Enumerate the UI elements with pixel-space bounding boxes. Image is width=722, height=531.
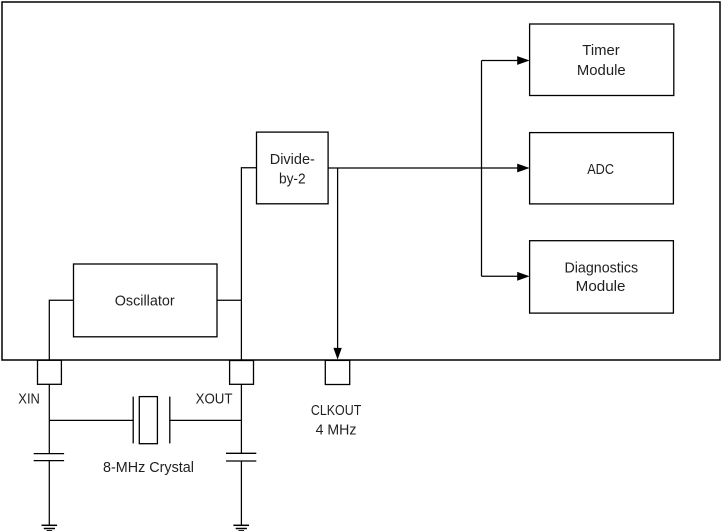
- crystal Y1 body: [139, 397, 157, 444]
- svg-text:XIN: XIN: [18, 391, 40, 407]
- wire divide-by-2 output to ADC: [328, 167, 518, 169]
- svg-text:Timer: Timer: [582, 43, 619, 59]
- wire crystal net left segment: [49, 419, 133, 421]
- wire XIN pin down to crystal net: [48, 383, 50, 420]
- ground left: [42, 525, 58, 531]
- wire left capacitor top lead: [48, 420, 50, 453]
- svg-text:Diagnostics: Diagnostics: [564, 260, 638, 276]
- svg-text:8-MHz Crystal: 8-MHz Crystal: [103, 460, 194, 476]
- wire branch to Timer Module: [482, 60, 519, 62]
- arrowhead into Diagnostics Module: [517, 272, 529, 281]
- wire right capacitor bottom lead to ground: [240, 461, 242, 525]
- arrowhead into ADC: [517, 164, 529, 173]
- wire crystal net right segment: [170, 419, 242, 421]
- svg-text:XOUT: XOUT: [196, 392, 233, 408]
- capacitor C2 bottom plate: [226, 460, 256, 462]
- svg-text:Oscillator: Oscillator: [115, 294, 175, 310]
- divide-by-2 block: [257, 132, 329, 204]
- capacitor C1 bottom plate: [34, 460, 64, 462]
- timer module block: [530, 24, 674, 96]
- crystal Y1 right plate: [169, 397, 171, 444]
- pin XOUT: [230, 361, 254, 385]
- wire XOUT net vertical: divide-by-2 input down to crystal net: [241, 168, 256, 421]
- arrowhead into Timer Module: [517, 56, 529, 65]
- wire CLKOUT drop: [337, 168, 339, 349]
- pin CLKOUT: [325, 360, 349, 384]
- svg-text:Module: Module: [576, 279, 626, 295]
- ground right: [233, 525, 249, 531]
- wire left capacitor bottom lead to ground: [48, 461, 50, 525]
- pin XIN: [38, 360, 62, 384]
- wire right capacitor top lead: [240, 420, 242, 453]
- crystal Y1 left plate: [132, 397, 134, 444]
- wire oscillator left to XIN net: [49, 300, 73, 362]
- svg-text:Divide-: Divide-: [270, 152, 315, 168]
- wire oscillator right to XOUT net: [217, 299, 241, 301]
- capacitor C1 top plate: [34, 453, 64, 455]
- wire clock distribution vertical: [481, 61, 483, 277]
- svg-text:4 MHz: 4 MHz: [316, 422, 357, 438]
- svg-text:CLKOUT: CLKOUT: [311, 403, 361, 419]
- wire branch to Diagnostics Module: [482, 275, 519, 277]
- svg-text:by-2: by-2: [279, 172, 306, 188]
- ADC block: [530, 133, 674, 204]
- svg-text:ADC: ADC: [587, 162, 614, 178]
- svg-text:Module: Module: [577, 63, 626, 79]
- diagnostics module block: [530, 241, 674, 313]
- oscillator block U1: [74, 264, 218, 337]
- arrowhead CLKOUT down: [333, 348, 341, 360]
- capacitor C2 top plate: [226, 452, 256, 454]
- outer box microcontroller boundary: [2, 2, 720, 360]
